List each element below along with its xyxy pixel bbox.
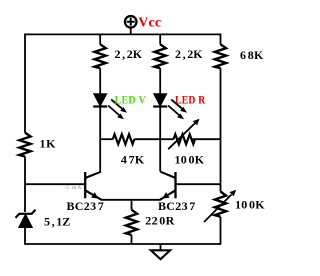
- wire 100K right lead: [193, 138, 221, 140]
- svg-text:47K: 47K: [121, 152, 145, 166]
- power symbol Vcc: [125, 16, 137, 34]
- wire branch 1 lower: [99, 107, 101, 172]
- svg-text:Vcc: Vcc: [138, 16, 161, 31]
- trimmer R7 100K vertical: [204, 190, 236, 222]
- wire branch 1 to LED: [99, 68, 101, 94]
- svg-text:220R: 220R: [145, 214, 174, 228]
- wire right rail middle: [220, 68, 222, 191]
- svg-text:68K: 68K: [240, 48, 264, 62]
- wire left rail middle: [24, 157, 26, 213]
- wire base left: [25, 183, 84, 185]
- resistor R8 220R: [126, 210, 137, 235]
- wire top rail: [25, 33, 221, 35]
- svg-text:1K: 1K: [40, 137, 57, 151]
- wire right rail upper: [220, 34, 222, 45]
- zener diode D3: [16, 210, 36, 228]
- transistor Q1 BC237: [85, 172, 101, 200]
- wire bottom rail: [25, 243, 221, 245]
- wire emitter rail: [101, 199, 160, 201]
- resistor R4 47K: [113, 134, 135, 144]
- svg-text:100K: 100K: [175, 152, 205, 166]
- wire branch 2 upper: [159, 34, 161, 45]
- svg-text:2,2K: 2,2K: [115, 47, 143, 61]
- wire 47K left lead: [100, 138, 113, 140]
- wire base right: [177, 183, 221, 185]
- wire branch 1 upper: [99, 34, 101, 45]
- wire 100K left lead: [160, 138, 173, 140]
- wire branch 2 to LED: [159, 68, 161, 94]
- resistor R1 2,2K: [94, 44, 105, 68]
- svg-text:-5 mA: -5 mA: [64, 185, 83, 191]
- wire left rail upper: [24, 34, 26, 133]
- wire 47K right lead: [134, 138, 160, 140]
- LED D1: [93, 94, 127, 119]
- wire 220R lower lead: [131, 235, 133, 244]
- LED D2: [153, 94, 187, 119]
- transistor Q2 BC237: [160, 172, 176, 200]
- svg-text:2,2K: 2,2K: [175, 47, 203, 61]
- resistor R3 68K: [215, 44, 226, 68]
- svg-text:LED V: LED V: [115, 93, 147, 107]
- svg-text:LED R: LED R: [175, 93, 206, 107]
- resistor R5 1K: [19, 133, 30, 157]
- svg-text:100K: 100K: [235, 197, 265, 211]
- wire branch 2 lower: [159, 107, 161, 172]
- wire 220R upper lead: [131, 200, 133, 210]
- svg-text:5,1Z: 5,1Z: [44, 215, 70, 229]
- svg-text:BC237: BC237: [158, 199, 196, 213]
- wire left rail lower: [24, 228, 26, 245]
- resistor R2 2,2K: [155, 44, 166, 68]
- ground: [151, 244, 170, 259]
- trimmer R6 100K horizontal: [168, 119, 199, 149]
- svg-text:BC237: BC237: [67, 199, 105, 213]
- wire right rail lower: [220, 217, 222, 245]
